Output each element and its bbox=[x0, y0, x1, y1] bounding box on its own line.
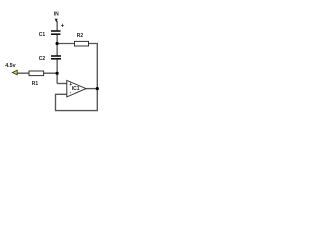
svg-text:IN: IN bbox=[54, 12, 59, 18]
svg-text:4.5v: 4.5v bbox=[5, 63, 16, 69]
svg-text:R1: R1 bbox=[32, 81, 39, 87]
svg-text:+: + bbox=[69, 82, 72, 88]
svg-text:R2: R2 bbox=[77, 33, 84, 39]
svg-text:IC1: IC1 bbox=[72, 86, 80, 92]
svg-text:+: + bbox=[61, 23, 65, 30]
svg-text:C1: C1 bbox=[39, 32, 46, 38]
svg-text:C2: C2 bbox=[39, 56, 46, 62]
